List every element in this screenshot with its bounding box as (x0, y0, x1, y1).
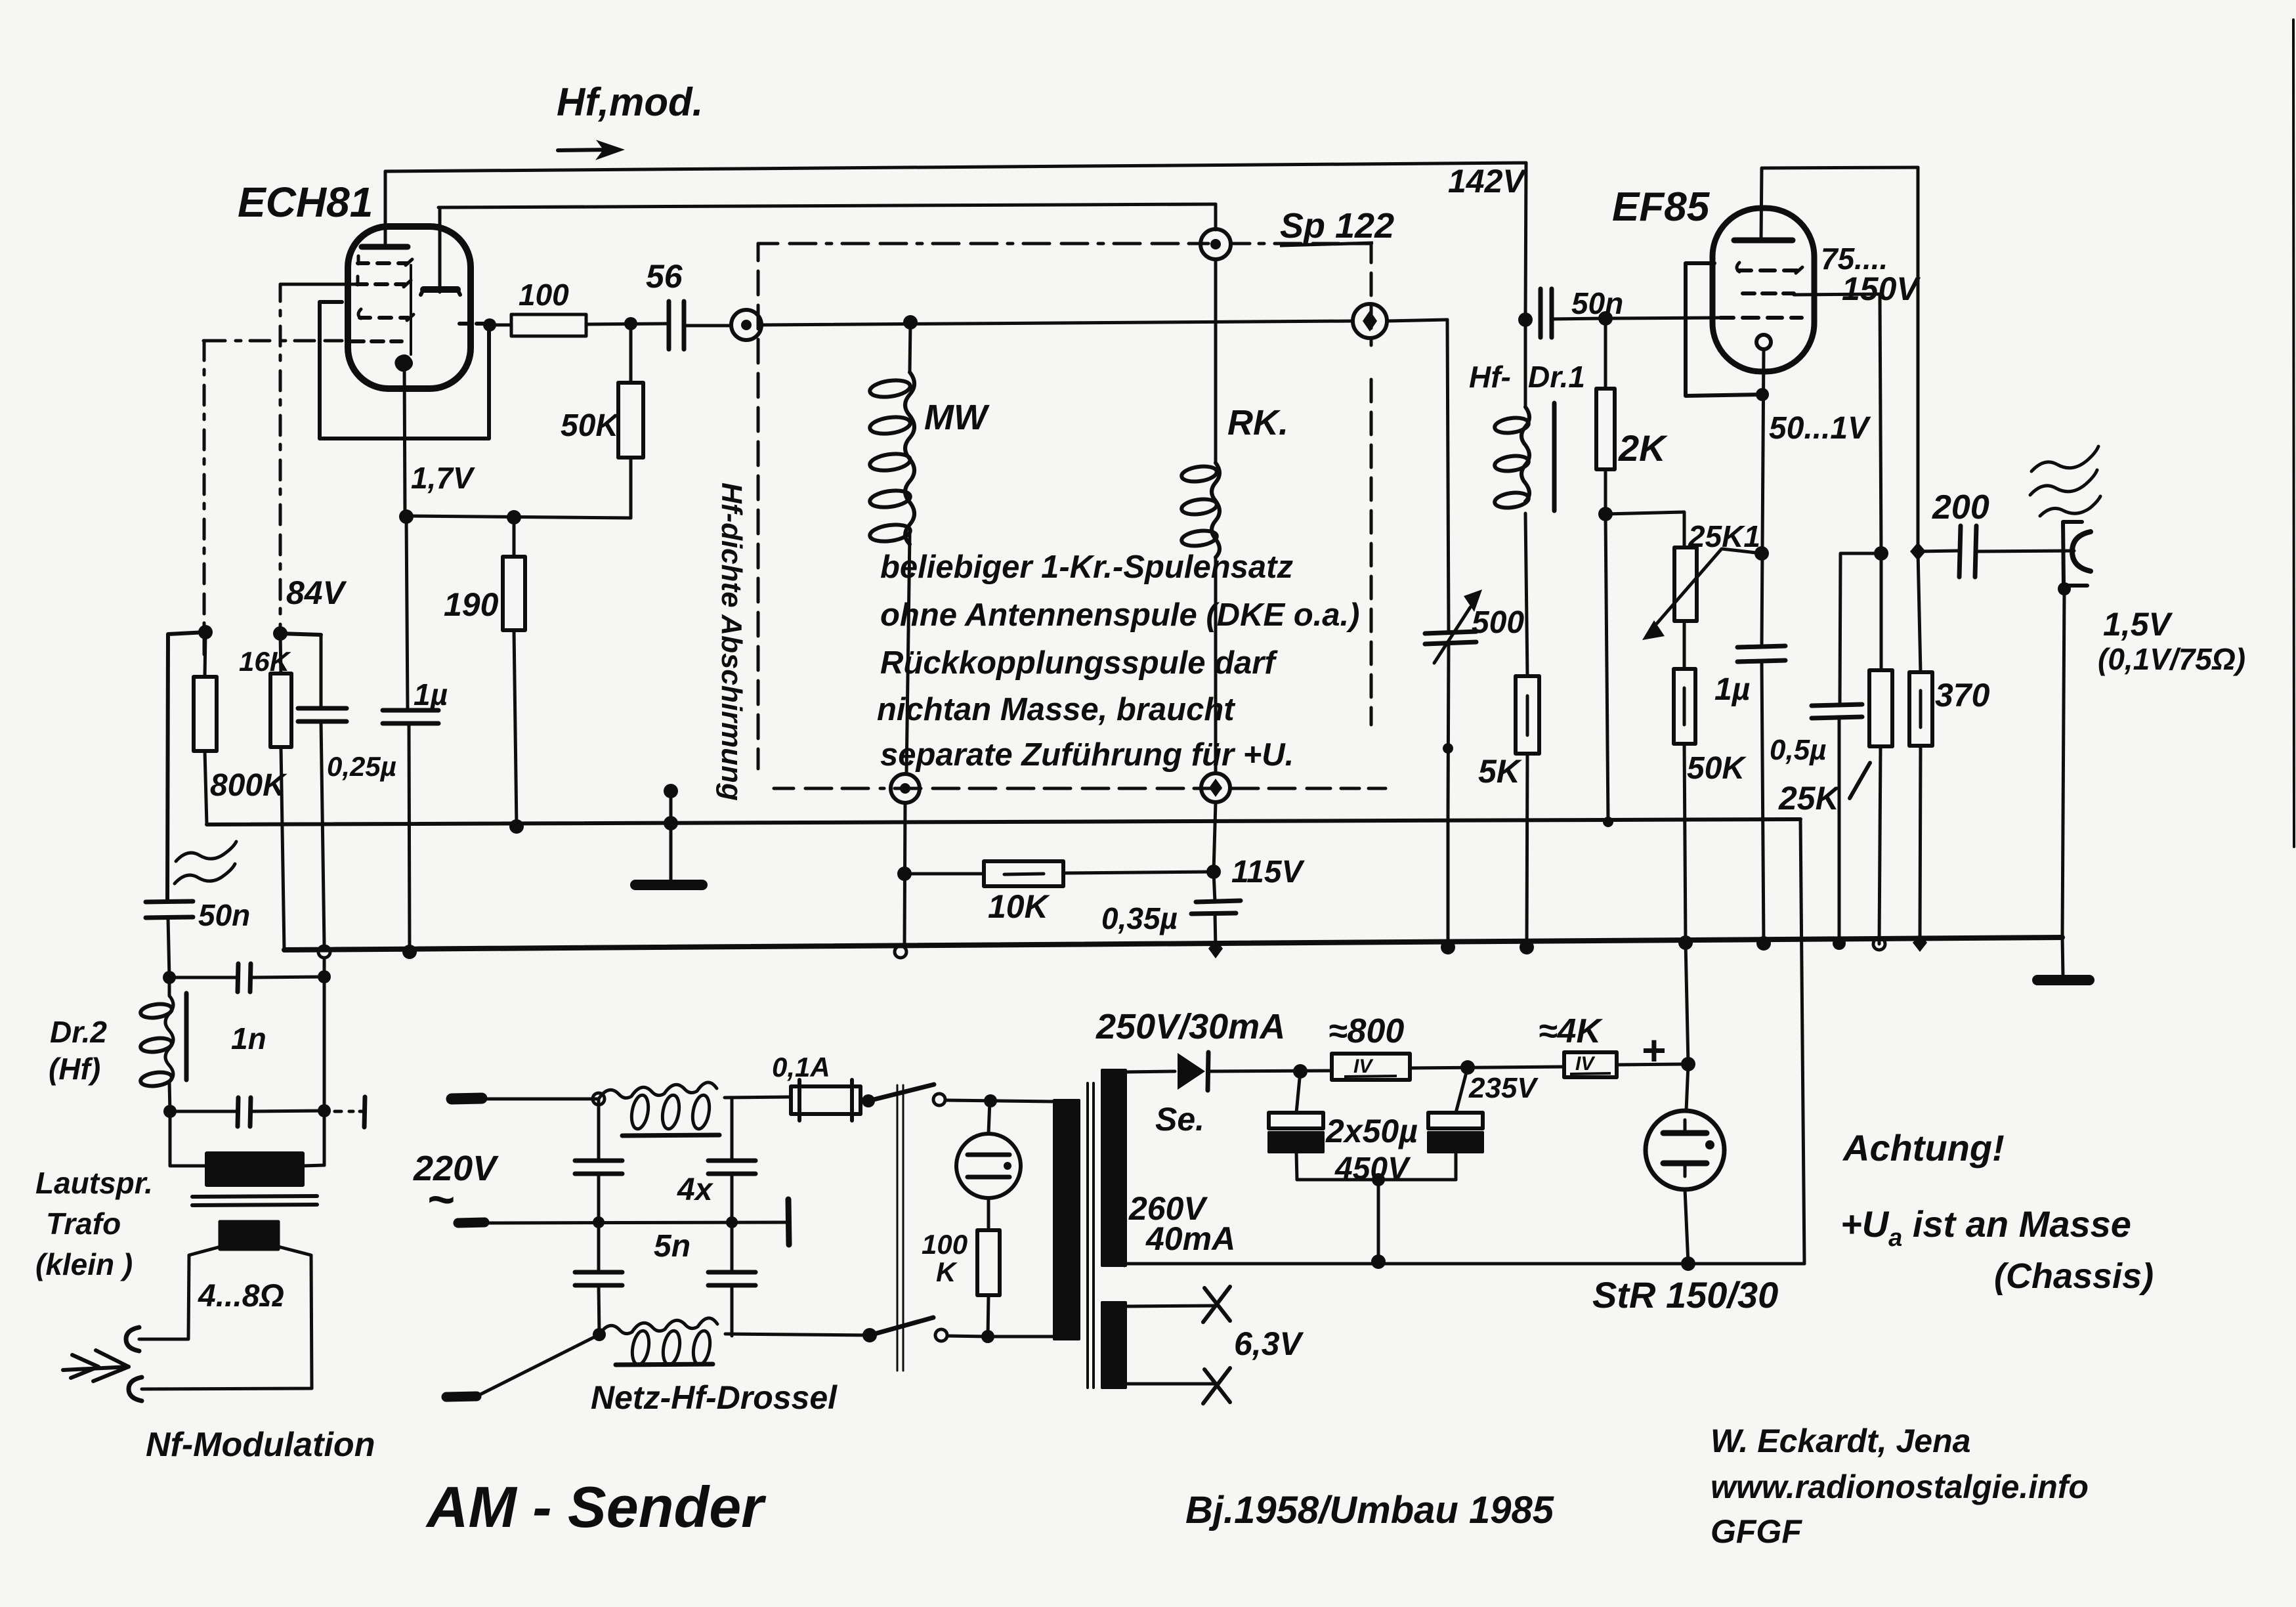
wire 16K top lead (280, 633, 281, 674)
svg-text:190: 190 (444, 586, 499, 623)
svg-text:100: 100 (519, 278, 569, 312)
svg-text:500: 500 (1472, 605, 1524, 640)
inductor Dr.1 choke (1524, 320, 1527, 407)
svg-text:beliebiger 1-Kr.-Spulensatz: beliebiger 1-Kr.-Spulensatz (880, 549, 1293, 585)
svg-text:1,7V: 1,7V (411, 461, 475, 495)
svg-text:40mA: 40mA (1145, 1220, 1235, 1257)
wire 2K node to pot top (1605, 512, 1684, 547)
wire StR bottom to rail (1685, 1189, 1688, 1264)
wire pot bottom to 50K top (1683, 621, 1686, 669)
ground bar shield (635, 880, 702, 890)
wire StR top lead (1686, 1064, 1688, 1111)
transformer core lines (1088, 1083, 1094, 1388)
svg-text:50K: 50K (561, 408, 620, 443)
dash-dot vertical 2 (84V modulator grid) (279, 286, 282, 636)
ground stub middle row (788, 1199, 789, 1245)
wire neon top lead (989, 1101, 990, 1134)
grid line dash-dot left of tube (osc grid to 800K) (203, 339, 342, 343)
wire cap column2 (731, 1098, 734, 1336)
antenna jack hook (2072, 532, 2091, 571)
wire choke1 to fuse (725, 1097, 791, 1098)
wire 56 cap to feedthrough (684, 324, 731, 328)
EF85 g1 dashes (1720, 316, 1802, 320)
svg-text:1n: 1n (231, 1021, 266, 1056)
node 370 chassis (1913, 933, 1927, 952)
wire g2 tee left arm (1840, 553, 1881, 706)
feedback box triode grid to heptode g3 (320, 302, 489, 439)
wire 1u bottom to chassis bus (409, 723, 410, 952)
wire elko2 leads (1456, 1067, 1468, 1180)
resistor 10K horizontal (984, 861, 1063, 886)
wire HV secondary top to rectifier (1124, 1071, 1175, 1072)
node 190 at R1 (509, 819, 524, 834)
resistor 16K (270, 674, 291, 747)
capacitor electrolytic 1 (1269, 1113, 1323, 1128)
wire lower cap row (170, 1111, 324, 1111)
wire 50n left to 1n node (168, 918, 169, 977)
svg-text:(Chassis): (Chassis) (1994, 1256, 2154, 1296)
capacitor 5n A2 (575, 1272, 622, 1285)
wire 500pF below to R1 (1448, 644, 1449, 814)
wire 10K row left vertical (904, 803, 905, 945)
resistor ~4K with IV (1564, 1052, 1617, 1077)
wire bus B corner down to Sp122 (1214, 204, 1218, 230)
wire hook left to Dr.2 line (167, 632, 205, 902)
svg-text:W. Eckardt, Jena: W. Eckardt, Jena (1711, 1423, 1970, 1459)
EF85 anode plate (1734, 238, 1793, 244)
wire 100R to 56 cap (586, 324, 669, 324)
wire neon to 100K (987, 1198, 990, 1230)
dashed shield box top edge (758, 242, 1208, 246)
svg-text:nichtan Masse, braucht: nichtan Masse, braucht (877, 692, 1235, 727)
wire choke2 to switch bottom (725, 1334, 870, 1335)
node EF85 g3 tie (1756, 388, 1769, 401)
svg-text:5n: 5n (654, 1229, 691, 1264)
wire switch bottom to transformer (947, 1336, 1055, 1337)
wire 10K row (904, 872, 1214, 874)
svg-text:(Hf): (Hf) (49, 1052, 100, 1086)
switch bottom pole (862, 1328, 877, 1342)
svg-text:GFGF: GFGF (1711, 1513, 1802, 1550)
wire MW coil top lead (910, 322, 910, 372)
dashed shield box right edge (1370, 246, 1373, 725)
potentiometer 25K1 (1674, 547, 1697, 621)
svg-text:10K: 10K (988, 888, 1051, 925)
capacitor 0,35u (1191, 901, 1241, 914)
no-connect hook 10K vertical at chassis bus (895, 946, 906, 958)
capacitor coupling lower (238, 1098, 251, 1126)
node EF85 cathode wiper row (1754, 546, 1769, 561)
node Dr.2 bottom (163, 1105, 177, 1118)
svg-text:AM - Sender: AM - Sender (425, 1474, 767, 1539)
wire ECH81 cathode row (405, 516, 631, 518)
wire 500pF column down (1447, 320, 1449, 630)
node 2K bottom (1598, 507, 1613, 521)
wire 4K to plus node (1617, 1064, 1688, 1065)
switch top pole (862, 1094, 875, 1107)
antenna jack bracket (2063, 522, 2087, 586)
probe dash and bar right of node (335, 1110, 365, 1113)
wire ECH81 cathode down (404, 365, 405, 516)
wire RK vertical crossing tank line (1214, 259, 1218, 463)
wire RK column below connector (1214, 802, 1216, 872)
wire grid node to tube (1605, 318, 1720, 318)
node cathode row 190 (507, 510, 521, 525)
ECH81 triode anode bar with lead up (423, 286, 457, 293)
wire elko mid down to supply rail (1377, 1180, 1380, 1262)
svg-text:250V/30mA: 250V/30mA (1095, 1007, 1285, 1046)
X mark top (1203, 1287, 1230, 1322)
svg-text:Bj.1958/Umbau 1985: Bj.1958/Umbau 1985 (1185, 1489, 1554, 1532)
wire MW coil bottom lead (906, 534, 910, 773)
wire rail R1 right end down (1800, 819, 1804, 1264)
svg-text:25K: 25K (1778, 780, 1842, 817)
svg-text:separate Zuführung für +U.: separate Zuführung für +U. (880, 737, 1294, 773)
svg-text:25K1: 25K1 (1688, 519, 1760, 553)
squiggle above 50n left (176, 842, 236, 861)
wire grid line to 100R (490, 324, 511, 327)
transformer Lautspr secondary (220, 1222, 278, 1249)
ECH81 row3 hook (358, 309, 414, 320)
wire 5K bottom to chassis (1527, 754, 1527, 947)
resistor 100 (511, 314, 586, 336)
capacitor 5n B1 (708, 1161, 755, 1174)
svg-text:50n: 50n (198, 898, 250, 932)
node elko mid (1372, 1173, 1385, 1186)
svg-text:1µ: 1µ (414, 677, 448, 712)
Dr.2 core bar (184, 993, 189, 1080)
wire mains middle row (484, 1222, 787, 1223)
resistor 2K (1596, 389, 1615, 469)
node supply rail mid (1371, 1254, 1386, 1269)
terminal RK bottom feedthrough (1201, 773, 1230, 802)
dash-dot vertical 1 (osc grid leak) (203, 341, 206, 654)
lamp neon indicator (956, 1134, 1021, 1198)
wire secondary left lead (139, 1246, 223, 1339)
svg-text:Dr.1: Dr.1 (1528, 360, 1585, 394)
inductor RK coil (1181, 464, 1218, 483)
wire jack ground down to chassis end (2062, 589, 2064, 937)
node anode column 200 branch (1910, 542, 1926, 561)
svg-text:150V: 150V (1842, 270, 1921, 307)
transformer HV secondary bar (1102, 1070, 1126, 1266)
capacitor 0,25u (298, 708, 347, 721)
ECH81 grid dashes row2 (g-screen) (356, 282, 405, 286)
svg-text:142V: 142V (1448, 163, 1527, 200)
node cathode row left (399, 509, 414, 524)
svg-text:Rückkopplungsspule darf: Rückkopplungsspule darf (880, 645, 1278, 681)
wire 800 to 4K (1410, 1067, 1564, 1068)
svg-text:1,5V: 1,5V (2103, 606, 2173, 643)
node EF85 grid (1598, 311, 1613, 326)
svg-text:4...8Ω: 4...8Ω (198, 1279, 284, 1314)
Dr.1 core bar (1552, 403, 1557, 511)
svg-text:5K: 5K (1478, 753, 1523, 790)
svg-text:Nf-Modulation: Nf-Modulation (146, 1426, 375, 1464)
inductor Dr.2 (140, 1002, 173, 1019)
Netz choke2 core (616, 1364, 713, 1365)
antenna waves (2031, 446, 2098, 471)
wire 50n to grid node (1552, 318, 1605, 319)
node MW top (903, 315, 918, 330)
wire cathode down to 1u cap (406, 517, 408, 710)
wire cap column1 (599, 1099, 599, 1335)
svg-text:220V: 220V (413, 1149, 499, 1188)
wire 50K bottom lead (629, 458, 633, 518)
svg-text:84V: 84V (286, 574, 347, 611)
node triode grid (483, 318, 496, 332)
svg-text:+Ua ist an Masse: +Ua ist an Masse (1840, 1203, 2131, 1252)
terminal hook lower Nf (129, 1377, 142, 1401)
wire 2K top lead (1604, 318, 1607, 389)
EF85 g3 dashes (1738, 268, 1797, 272)
svg-text:50n: 50n (1571, 286, 1623, 320)
transformer Lautspr primary (207, 1153, 303, 1185)
svg-text:≈4K: ≈4K (1539, 1012, 1603, 1050)
wire EF85 anode up and over (1761, 167, 1918, 240)
svg-text:0,1A: 0,1A (772, 1052, 830, 1082)
svg-text:IV: IV (1353, 1056, 1374, 1077)
wire 100K bottom (988, 1295, 989, 1337)
wire EF85 g3 hook to envelope (1686, 263, 1762, 396)
tube ECH81 envelope (348, 226, 471, 389)
node neon top (984, 1094, 997, 1107)
svg-text:Hf-: Hf- (1469, 360, 1511, 394)
node 10K row right (1206, 865, 1221, 879)
EF85 g2 dashes (1743, 291, 1794, 295)
svg-text:370: 370 (1935, 677, 1990, 714)
wire EF85 anode column down (1917, 167, 1920, 551)
svg-text:56: 56 (646, 258, 683, 295)
svg-text:115V: 115V (1231, 855, 1306, 889)
wire diode to first node (1208, 1071, 1332, 1071)
svg-text:2x50µ: 2x50µ (1325, 1113, 1418, 1149)
node plus (1681, 1057, 1695, 1071)
wire 190 top lead (513, 517, 516, 557)
svg-text:6,3V: 6,3V (1234, 1325, 1304, 1362)
wire 6.3V top (1126, 1306, 1216, 1306)
capacitor 50n EF85 coupling (1541, 289, 1552, 337)
svg-text:ECH81: ECH81 (238, 179, 373, 226)
terminal MW bottom feedthrough (891, 774, 920, 803)
capacitor 200 (1959, 526, 1976, 577)
wire chassis bus R2 (284, 937, 2062, 950)
wire 6.3V bottom (1126, 1382, 1216, 1386)
no-connect hook 0.25u at chassis bus (318, 946, 330, 958)
capacitor 500 variable plates (1425, 632, 1476, 644)
wire tank line to 500pF column (1387, 320, 1447, 321)
wire elko bottoms joined (1297, 1178, 1456, 1182)
svg-text:235V: 235V (1468, 1072, 1539, 1104)
capacitor 1u ECH81 (383, 710, 438, 723)
node 1u EF85 chassis (1756, 936, 1771, 951)
node mains bottom column (593, 1328, 606, 1341)
wire 0,35u bottom to chassis bus (1215, 914, 1216, 948)
EF85 cathode circle (1756, 335, 1771, 349)
node shield at dashed box (664, 784, 678, 798)
wire 1n column down to primary (323, 977, 326, 1165)
wire 800K top lead (205, 632, 205, 677)
svg-text:Netz-Hf-Drossel: Netz-Hf-Drossel (591, 1379, 838, 1416)
capacitor 50n left (146, 901, 193, 918)
mains pin bottom (446, 1396, 477, 1397)
wire 1n row (169, 977, 324, 977)
node 5K chassis (1520, 940, 1534, 954)
dashed shield box bottom edge (774, 787, 1386, 790)
node 1n right (318, 970, 331, 983)
node mains top column (593, 1093, 605, 1105)
capacitor 5n B2 (708, 1272, 755, 1285)
svg-text:0,25µ: 0,25µ (327, 751, 396, 782)
svg-text:4x: 4x (677, 1172, 714, 1207)
wire fuse to switch (861, 1099, 868, 1102)
wire anode column to 370 (1918, 551, 1921, 672)
wire g2 feed down (1880, 294, 1881, 553)
resistor 25K (1869, 670, 1892, 746)
border right edge (2293, 20, 2294, 847)
terminal tank line right feedthrough (1353, 304, 1387, 338)
inductor Netz choke 2 (599, 1318, 717, 1335)
wire bus B from triode anode (438, 204, 1216, 207)
wire switch to transformer (945, 1100, 1053, 1102)
capacitor 0,5u (1812, 704, 1862, 718)
node lower cap right (318, 1104, 331, 1117)
svg-text:MW: MW (924, 398, 990, 437)
wire 0.25u column lower crossing rails (321, 721, 324, 978)
svg-text:Achtung!: Achtung! (1842, 1127, 2005, 1168)
node between filters (1460, 1060, 1475, 1075)
svg-text:EF85: EF85 (1612, 184, 1711, 230)
wire EF85 g2 exit right (1794, 294, 1880, 295)
svg-text:0,35µ: 0,35µ (1101, 901, 1178, 935)
wire secondary right lead (142, 1246, 312, 1389)
ECH81 heptode anode plate (362, 244, 408, 250)
wire primary right to 1n column (303, 1165, 324, 1166)
node rectifier output (1293, 1064, 1307, 1079)
ECH81 cathode blob (396, 356, 412, 370)
node Dr.2 top (163, 971, 176, 984)
wire 50K top lead (629, 324, 633, 383)
arrow Nf input (63, 1367, 129, 1370)
capacitor 1n (238, 964, 251, 992)
transformer mains primary bar (1054, 1100, 1079, 1339)
wire rail R1 (+115V rail) (207, 819, 1800, 825)
ECH81 grid row2 hooks (358, 276, 411, 287)
wire 190 bottom to rail R1 (514, 630, 517, 826)
capacitor 1u EF85 cathode (1737, 646, 1785, 662)
resistor 5K (1516, 676, 1539, 754)
svg-text:1µ: 1µ (1714, 672, 1750, 707)
svg-text:ohne Antennenspule (DKE o.a.): ohne Antennenspule (DKE o.a.) (880, 597, 1359, 633)
slash mark 25K (1850, 763, 1870, 798)
resistor 100K (977, 1230, 1000, 1295)
Lautspr core lines (192, 1196, 317, 1205)
wire mains top (482, 1098, 599, 1101)
inductor Netz choke 1 (599, 1082, 717, 1099)
resistor 190 (503, 557, 525, 630)
svg-text:www.radionostalgie.info: www.radionostalgie.info (1711, 1468, 2089, 1505)
ink blob on 500 line (1443, 743, 1453, 754)
node middle col2 (726, 1216, 738, 1228)
node 0,5u chassis (1833, 937, 1846, 950)
tube EF85 envelope (1712, 208, 1814, 372)
wire 800K bottom to rail R1 (205, 751, 207, 825)
wire 200 cap branch (1918, 551, 1957, 551)
ECH81 grid dashes row1 (358, 261, 408, 265)
svg-text:≈800: ≈800 (1329, 1012, 1404, 1050)
ECH81 grid dashes row3 (triode grid) (360, 316, 408, 320)
wire 200 to antenna jack (1976, 551, 2074, 551)
pot 25K1 wiper arrow (1657, 549, 1762, 624)
ECH81 inner grid tie vertical (410, 265, 412, 354)
svg-text:2K: 2K (1618, 427, 1668, 469)
wire chassis end stub (2062, 937, 2063, 976)
svg-text:StR 150/30: StR 150/30 (1592, 1274, 1778, 1316)
switch link dashed (897, 1085, 903, 1371)
resistor ~800 with IV (1332, 1054, 1410, 1080)
svg-text:(klein ): (klein ) (35, 1247, 133, 1281)
transformer 6.3V secondary bar (1102, 1302, 1126, 1388)
wire Dr.2 bottom down to primary (170, 1111, 207, 1166)
svg-text:Trafo: Trafo (46, 1207, 121, 1241)
svg-text:+: + (1641, 1027, 1665, 1074)
resistor 370 (1909, 672, 1932, 746)
resistor 50K EF85 (1674, 669, 1695, 744)
svg-text:100: 100 (922, 1229, 967, 1260)
svg-text:IV: IV (1575, 1053, 1596, 1075)
inductor MW coil (905, 372, 914, 544)
node 500pF chassis (1441, 940, 1455, 954)
wire elko1 leads (1296, 1071, 1300, 1180)
wire screen grid exit left to 84V dash line (280, 283, 356, 286)
wire to 0,35u cap (1214, 872, 1215, 902)
wire 142V corner down to 50n node (1525, 163, 1526, 320)
resistor 50K ECH81 (618, 383, 643, 458)
Netz choke1 core (622, 1135, 719, 1136)
wire 25K top lead (1880, 553, 1883, 670)
svg-text:16K: 16K (239, 646, 291, 677)
terminal Sp122 circle (1201, 229, 1231, 259)
wire main tank line (761, 321, 1353, 325)
capacitor electrolytic 2 (1428, 1113, 1483, 1128)
terminal feedthrough on grid line (731, 310, 761, 340)
wire 500pF continue to chassis bus (1447, 814, 1450, 949)
wire 84V node to 0.25u column (280, 633, 321, 635)
svg-text:200: 200 (1932, 488, 1989, 526)
node 50K chassis (1678, 935, 1693, 950)
node shield at R1 (664, 816, 678, 830)
node 100K bottom (981, 1330, 994, 1343)
svg-text:0,5µ: 0,5µ (1770, 734, 1827, 766)
wire ECH81 anode to top bus (384, 171, 387, 247)
dashed shield box left edge (757, 244, 760, 769)
mains pin middle (458, 1222, 484, 1223)
node 2K column at R1 (1603, 817, 1613, 827)
node after 100R (624, 317, 637, 330)
wire 0.25u column upper (320, 635, 323, 708)
wire EF85 cathode down (1762, 349, 1764, 647)
svg-text:Hf,mod.: Hf,mod. (557, 80, 703, 124)
svg-text:Se.: Se. (1155, 1101, 1204, 1138)
underline Sp 122 (1280, 243, 1373, 246)
wire 0.25u column into chassis crossing (323, 1111, 326, 1165)
wire top bus 142V (bus A) (385, 163, 1526, 171)
X mark bottom (1203, 1368, 1230, 1403)
svg-text:Hf-dichte Abschirmung: Hf-dichte Abschirmung (715, 482, 748, 801)
ECH81 grid row1 end hooks (358, 256, 412, 265)
svg-text:Dr.2: Dr.2 (50, 1015, 107, 1049)
svg-text:~: ~ (427, 1174, 454, 1226)
